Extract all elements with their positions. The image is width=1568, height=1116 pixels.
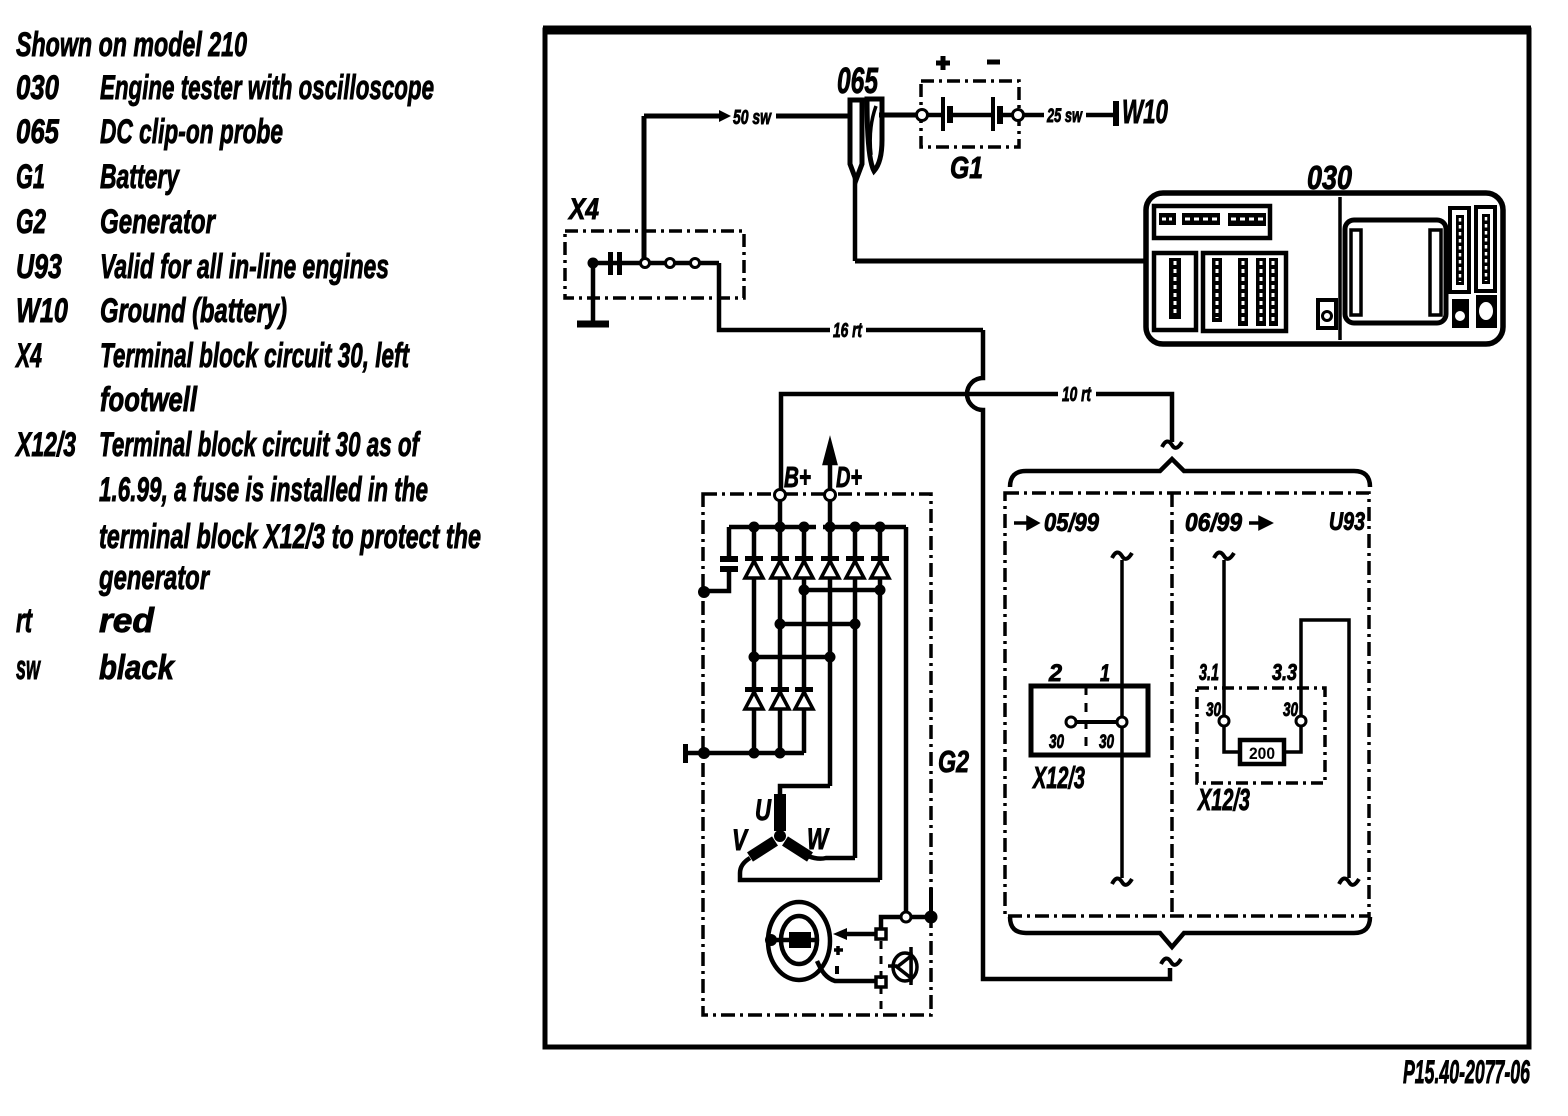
svg-text:Generator: Generator: [100, 203, 216, 241]
wire 25 sw left segment: [1023, 113, 1044, 118]
column diode 5: [853, 527, 858, 858]
terminal block X12/3 left box: [1031, 686, 1148, 755]
wire 50 sw right segment: [776, 114, 850, 119]
suppression capacitor plates: [720, 556, 738, 562]
tester left slot panel: [1154, 253, 1196, 330]
diode D3: [795, 556, 813, 578]
pairing line phase U: [754, 655, 830, 660]
D+ arrow up: [825, 444, 835, 495]
U93 dash-dot box: [1005, 493, 1369, 916]
left wire bottom squiggle: [1112, 878, 1132, 884]
tester screen right slot: [1430, 230, 1441, 315]
rotor outer circle: [768, 902, 830, 980]
ground W10 bar: [1113, 101, 1119, 126]
PARTNO: [1403, 1054, 1530, 1090]
regulator arrow line: [845, 932, 877, 937]
tester top button panel: [1154, 206, 1270, 238]
stator winding W coil: [785, 841, 810, 857]
clip-on probe 065 left jaw: [850, 100, 862, 180]
GENERATOR: [683, 444, 969, 1015]
clip-on probe 065 right jaw: [867, 99, 882, 171]
wire 16 rt vertical from X4: [719, 263, 830, 330]
X4 internal wire: [593, 261, 719, 266]
battery G1 plus label: [936, 56, 950, 70]
X4 terminal circle 3: [691, 259, 700, 268]
wire 25 sw right segment: [1086, 113, 1113, 118]
TESTER030: [1146, 159, 1503, 344]
column diode 6: [878, 527, 883, 880]
brush symbol circle: [893, 953, 917, 981]
diode D4: [821, 556, 839, 578]
tester right strip 1: [1450, 208, 1469, 292]
battery G1 left terminal: [917, 110, 928, 121]
left section wire circuit 30: [1120, 560, 1124, 878]
wire 10 rt right segment: [1096, 394, 1172, 442]
battery G1 box: [921, 81, 1019, 147]
rotor inner circle: [781, 916, 817, 964]
wire 16 rt squiggle break: [1161, 958, 1181, 964]
suppression capacitor to housing: [705, 572, 729, 591]
svg-text:W10: W10: [1122, 93, 1168, 130]
wire 50 sw left segment: [644, 114, 719, 119]
wire 50 sw vertical drop to X4: [642, 116, 647, 263]
X12/3 left box divider: [1085, 686, 1088, 755]
regulator wire to housing: [881, 917, 906, 929]
svg-text:3.1: 3.1: [1199, 659, 1219, 685]
battery G1 cell wires: [925, 113, 941, 118]
svg-text:50 sw: 50 sw: [733, 107, 772, 129]
svg-text:05/99: 05/99: [1044, 509, 1099, 537]
brush symbol wedge: [897, 956, 911, 978]
diode D7: [745, 687, 763, 709]
regulator minus mark: [835, 966, 839, 974]
svg-text:Ground (battery): Ground (battery): [100, 292, 287, 330]
X4SECTION: [565, 193, 1182, 979]
svg-text:Terminal block circuit 30, lef: Terminal block circuit 30, left: [100, 337, 410, 375]
tester button 2: [1182, 213, 1220, 225]
column diode 3: [802, 527, 807, 753]
rotor lower lead to regulator: [817, 961, 877, 981]
terminal block X4 box: [565, 231, 744, 298]
svg-text:200: 200: [1249, 744, 1275, 763]
housing junction dot regulator: [925, 911, 938, 924]
stator winding V coil: [750, 841, 775, 857]
probe cable down: [853, 178, 858, 261]
pairing line junction dots: [799, 585, 810, 596]
housing junction dot capacitor: [698, 586, 710, 598]
svg-text:W10: W10: [16, 292, 68, 330]
regulator arrowhead: [833, 928, 847, 940]
tester middle slot panel: [1203, 253, 1286, 331]
U93SECTION: [1005, 459, 1370, 947]
tester screen left slot: [1351, 230, 1361, 315]
wire 10 rt from B+: [781, 394, 1058, 495]
tester bottom small button 2: [1476, 295, 1497, 328]
svg-text:G1: G1: [16, 158, 45, 196]
tester divider: [1338, 197, 1342, 340]
border frame: [545, 30, 1529, 1047]
X4 junction dot: [588, 258, 599, 269]
svg-text:U93: U93: [1329, 508, 1365, 536]
tester button 3: [1228, 213, 1266, 226]
svg-text:G2: G2: [938, 744, 969, 779]
svg-text:U93: U93: [16, 248, 62, 286]
right section wire 3.3: [1301, 620, 1349, 878]
svg-text:X4: X4: [567, 193, 599, 226]
svg-text:DC clip-on probe: DC clip-on probe: [100, 113, 283, 151]
pairing line phase W: [780, 622, 855, 627]
diode D9: [795, 687, 813, 709]
wire 16 rt right segment: [866, 328, 983, 333]
generator G2 housing box: [703, 494, 931, 1015]
svg-text:black: black: [99, 649, 176, 687]
bottom ground bus: [686, 751, 804, 756]
svg-text:red: red: [99, 602, 155, 640]
battery G1 minus label: [987, 60, 1000, 65]
brush symbol chord: [909, 947, 913, 985]
suppression capacitor lead: [727, 527, 732, 556]
svg-text:Shown on model 210: Shown on model 210: [16, 26, 247, 64]
svg-text:30: 30: [1099, 732, 1114, 753]
regulator plus mark: [834, 946, 843, 955]
svg-text:G2: G2: [16, 203, 46, 241]
right wire top squiggle: [1214, 552, 1234, 558]
wire probe cable to tester 030: [855, 259, 1146, 264]
TOPCIRCUIT: [644, 56, 1168, 263]
svg-text:25 sw: 25 sw: [1046, 106, 1082, 127]
right section wire 3.1: [1222, 560, 1226, 721]
battery G1 cell 2 long plate: [991, 97, 995, 131]
housing solid segment: [929, 888, 933, 918]
stator winding V lead: [740, 858, 880, 880]
svg-text:B+: B+: [784, 462, 811, 494]
ground stub bar: [683, 744, 688, 763]
X12/3 left terminal 2 circle: [1066, 717, 1076, 727]
svg-text:030: 030: [16, 69, 59, 107]
svg-text:1: 1: [1100, 660, 1110, 687]
svg-text:rt: rt: [16, 602, 33, 640]
X4 contact bars: [608, 252, 613, 275]
top bus D+ rail: [823, 525, 906, 530]
terminal block X12/3 right dash-dot box: [1197, 688, 1325, 783]
battery G1 cell 1 short plate: [947, 106, 953, 123]
svg-text:Engine tester with oscilloscop: Engine tester with oscilloscope: [100, 69, 434, 107]
bus junction dots: [749, 522, 760, 533]
regulator terminal square 1: [876, 929, 886, 939]
regulator dashed boundary: [880, 941, 883, 1013]
svg-text:D+: D+: [836, 462, 862, 494]
svg-text:P15.40-2077-06: P15.40-2077-06: [1403, 1054, 1530, 1090]
svg-text:footwell: footwell: [100, 381, 198, 419]
U93 top brace: [1010, 459, 1370, 487]
svg-text:U: U: [755, 794, 772, 827]
svg-text:Valid for all in-line engines: Valid for all in-line engines: [100, 248, 389, 286]
terminal D+ circle: [825, 490, 836, 501]
X12/3 left terminal 1 circle: [1117, 717, 1127, 727]
fuse 200: [1240, 740, 1284, 764]
diode D2: [771, 556, 789, 578]
stator winding W lead: [808, 856, 855, 859]
svg-text:065: 065: [16, 113, 60, 151]
stator winding U coil: [774, 794, 786, 831]
svg-text:30: 30: [1049, 732, 1064, 753]
svg-text:V: V: [732, 824, 749, 857]
rotor left dot: [765, 934, 777, 946]
svg-text:06/99: 06/99: [1185, 509, 1242, 537]
battery G1 cell 1 long plate: [941, 97, 945, 131]
svg-text:sw: sw: [16, 649, 41, 687]
U93 divider: [1170, 493, 1174, 916]
X4 terminal circle 2: [666, 259, 675, 268]
X12/3 right terminal 3.3 circle: [1296, 716, 1306, 726]
wire 16 rt vertical with hop over 10 rt: [967, 330, 1170, 979]
brush symbol stub: [888, 964, 897, 968]
top bus B+ rail: [729, 525, 816, 530]
U93 bottom brace: [1010, 917, 1370, 947]
svg-text:X4: X4: [15, 337, 42, 375]
svg-text:3.3: 3.3: [1272, 659, 1297, 685]
svg-text:10 rt: 10 rt: [1062, 384, 1092, 406]
diode D8: [771, 687, 789, 709]
diode D6: [871, 556, 889, 578]
tester right strip 2: [1476, 207, 1495, 291]
tester left slot bar: [1169, 258, 1181, 319]
engine tester 030 body: [1146, 193, 1503, 344]
label 05/99 arrow: [1014, 518, 1037, 528]
wire 10 rt squiggle break: [1162, 441, 1182, 447]
wire 50 sw arrowhead: [719, 110, 731, 122]
tester small button left of divider: [1318, 300, 1336, 328]
X4 terminal circle 1: [641, 259, 650, 268]
svg-text:terminal block X12/3 to protec: terminal block X12/3 to protect the: [99, 518, 481, 556]
svg-text:X12/3: X12/3: [1032, 760, 1085, 795]
wire probe to battery: [879, 113, 918, 118]
column to regulator: [904, 527, 909, 917]
terminal B+ circle: [775, 490, 786, 501]
regulator terminal circle: [901, 912, 911, 922]
svg-text:X12/3: X12/3: [15, 426, 76, 464]
clip-on probe 065 inner hook: [870, 106, 876, 155]
pairing line phase V: [804, 588, 880, 593]
tester screen: [1345, 220, 1446, 323]
field winding bar: [789, 932, 811, 948]
ground below X4 bar: [577, 321, 609, 328]
fuse wiring: [1224, 721, 1240, 752]
svg-text:generator: generator: [98, 559, 210, 597]
label 06/99 arrow: [1249, 518, 1270, 528]
ground below X4 wire: [591, 263, 596, 321]
svg-text:1.6.99, a fuse is installed in: 1.6.99, a fuse is installed in the: [99, 471, 428, 509]
regulator terminal square 2: [876, 977, 886, 987]
column diode 1: [752, 527, 757, 753]
diode D1: [745, 556, 763, 578]
wire D+ column jog to stator U: [780, 786, 830, 794]
svg-text:16 rt: 16 rt: [833, 320, 863, 342]
diode D5: [846, 556, 864, 578]
tester middle slot bars: [1212, 258, 1222, 322]
svg-text:2: 2: [1048, 660, 1063, 687]
svg-text:065: 065: [837, 60, 879, 101]
regulator wire circle to housing dot: [906, 915, 931, 920]
svg-text:G1: G1: [950, 150, 983, 185]
left wire top squiggle: [1112, 552, 1132, 558]
svg-text:Battery: Battery: [100, 158, 180, 196]
tester bottom small button 1: [1452, 299, 1469, 328]
svg-text:X12/3: X12/3: [1197, 782, 1250, 817]
X12/3 right terminal 3.1 circle: [1219, 716, 1229, 726]
X12/3 left jumper: [1071, 720, 1122, 724]
svg-text:Terminal block circuit 30 as o: Terminal block circuit 30 as of: [99, 426, 421, 464]
battery G1 right terminal: [1013, 110, 1024, 121]
ground bus junction dots: [698, 747, 710, 759]
LEGEND: [15, 26, 481, 687]
rotor axis wire: [771, 938, 817, 943]
battery G1 cell 2 short plate: [997, 106, 1003, 124]
right wire bottom squiggle: [1339, 878, 1359, 884]
column diode 4 / D+: [828, 495, 833, 786]
tester button 1: [1159, 213, 1176, 225]
column diode 2 / B+: [778, 495, 783, 753]
star point dot: [774, 830, 786, 842]
